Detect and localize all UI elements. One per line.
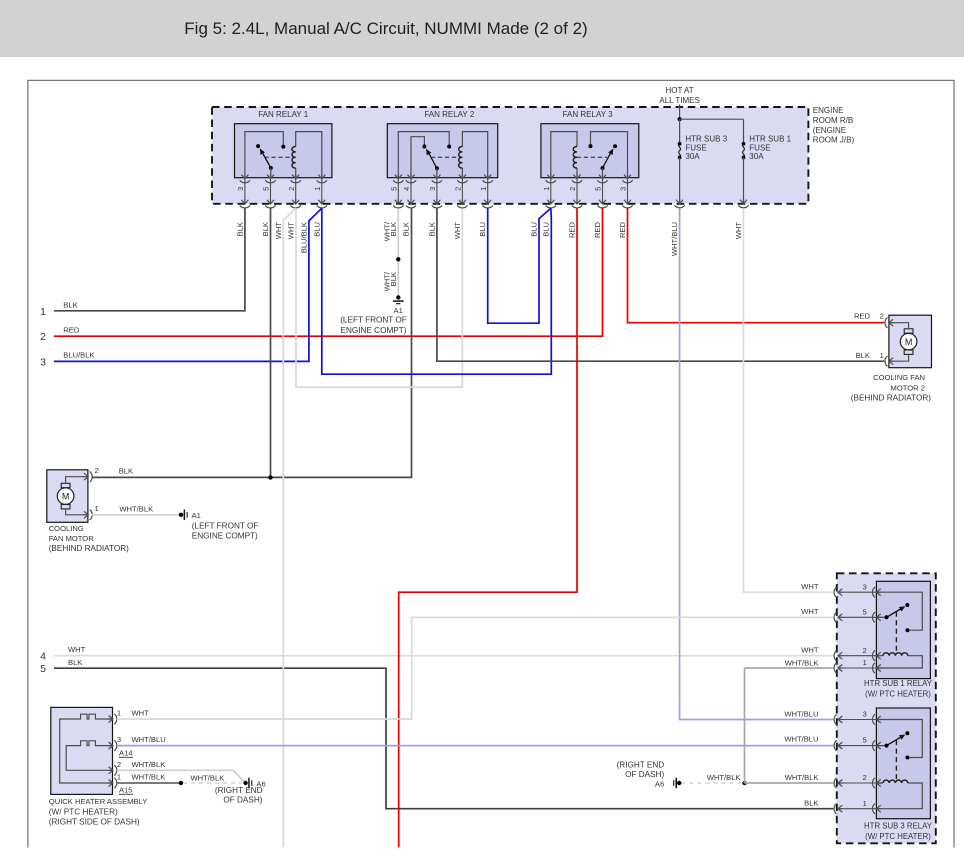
svg-text:(BEHIND RADIATOR): (BEHIND RADIATOR) xyxy=(851,394,931,403)
wire WHT/BLK junction to HTR SUB3 relay pin2 xyxy=(745,782,834,784)
motor M2 symbol xyxy=(900,333,917,350)
svg-text:1: 1 xyxy=(95,504,99,513)
wire WHT/BLK heater pin2 to connector A6 xyxy=(117,770,246,782)
svg-text:(W/ PTC HEATER): (W/ PTC HEATER) xyxy=(865,832,931,841)
relay K2 contact route pin4 xyxy=(411,137,424,178)
pin 1 stem xyxy=(550,178,552,204)
svg-text:WHT/BLU: WHT/BLU xyxy=(132,735,166,744)
svg-text:1: 1 xyxy=(479,187,488,191)
junction node WHT/BLK heater xyxy=(179,781,183,785)
fuse F2 HTR SUB 1 FUSE 30A xyxy=(743,119,745,144)
svg-text:BLK: BLK xyxy=(119,467,133,476)
svg-text:FAN RELAY 3: FAN RELAY 3 xyxy=(563,110,614,119)
engine room R/B dashed box xyxy=(212,107,808,204)
relay K3 contact dot left xyxy=(589,144,593,148)
svg-text:HTR SUB 1: HTR SUB 1 xyxy=(749,135,791,144)
relay HTR SUB 3 RELAY dashed actuator link xyxy=(895,740,897,781)
relay K3 blade pivot dot xyxy=(601,166,605,170)
svg-text:2: 2 xyxy=(568,187,577,191)
svg-text:WHT: WHT xyxy=(453,222,462,240)
relay K2 FAN RELAY 2 xyxy=(387,124,497,178)
wire WHT/BLK heater pin1 to junction xyxy=(117,782,181,784)
wire 4 WHT left edge to HTR SUB1 relay pin2 xyxy=(54,655,833,657)
svg-text:3: 3 xyxy=(236,187,245,191)
relay HTR SUB 1 RELAY floating contact dot xyxy=(905,603,909,607)
svg-text:ROOM R/B: ROOM R/B xyxy=(813,116,853,125)
pin 1 stem xyxy=(321,178,323,204)
svg-text:1: 1 xyxy=(863,799,867,808)
relay HTR SUB 1 RELAY pivot dot pin5 xyxy=(876,616,886,618)
wire WHT/BLK to HTR SUB1 relay pin1 xyxy=(745,667,834,669)
svg-text:1: 1 xyxy=(542,187,551,191)
wire WHT fuse F2 to HTR SUB1 relay pin3 xyxy=(744,208,834,592)
svg-text:30A: 30A xyxy=(749,152,764,161)
svg-text:WHT/BLU: WHT/BLU xyxy=(670,222,679,256)
svg-text:COOLING FAN: COOLING FAN xyxy=(873,373,925,382)
svg-text:FAN RELAY 2: FAN RELAY 2 xyxy=(424,110,475,119)
pin 2 connector motor M1 xyxy=(83,472,92,482)
relay HTR SUB 3 RELAY contact route pin3 xyxy=(876,720,922,758)
svg-text:(RIGHT SIDE OF DASH): (RIGHT SIDE OF DASH) xyxy=(49,818,140,827)
fuse F1 HTR SUB 3 FUSE 30A xyxy=(679,119,681,144)
relay K3 floating contact dot xyxy=(613,144,617,148)
svg-text:BLK: BLK xyxy=(261,222,270,236)
relay K2 contact dot left xyxy=(422,145,426,149)
svg-text:ENGINE COMPT): ENGINE COMPT) xyxy=(192,532,258,541)
svg-text:5: 5 xyxy=(390,187,399,191)
connector A6 left xyxy=(243,781,247,785)
svg-text:2: 2 xyxy=(117,760,121,769)
relay HTR SUB 3 RELAY floating contact dot xyxy=(905,731,909,735)
relay K3 coil xyxy=(576,168,578,178)
wire 1 BLK relay1 pin3 to left edge xyxy=(54,208,245,311)
svg-text:5: 5 xyxy=(40,663,46,675)
svg-text:(BEHIND RADIATOR): (BEHIND RADIATOR) xyxy=(49,544,129,553)
svg-text:1: 1 xyxy=(117,773,121,782)
svg-text:M: M xyxy=(62,492,70,502)
pin 3 connector HTR SUB 1 RELAY xyxy=(834,587,843,597)
svg-text:FAN MOTOR: FAN MOTOR xyxy=(49,534,95,543)
svg-text:BLK: BLK xyxy=(235,222,244,236)
svg-text:MOTOR 2: MOTOR 2 xyxy=(891,383,925,392)
svg-text:A1: A1 xyxy=(394,306,403,315)
pin 1 connector heater top xyxy=(108,714,117,724)
svg-text:3: 3 xyxy=(863,710,867,719)
pin 5 connector HTR SUB 1 RELAY xyxy=(834,612,843,622)
pin 1 connector HTR SUB 3 RELAY xyxy=(834,804,843,814)
pin 5 stem xyxy=(602,178,604,204)
wire feed from hot at all times xyxy=(679,105,681,120)
svg-text:Fig 5: 2.4L, Manual A/C Circui: Fig 5: 2.4L, Manual A/C Circuit, NUMMI M… xyxy=(184,19,587,38)
svg-text:WHT/BLU: WHT/BLU xyxy=(784,709,818,718)
pin 2 stem xyxy=(461,178,463,204)
relay K3 FAN RELAY 3 xyxy=(541,124,639,178)
svg-text:ALL TIMES: ALL TIMES xyxy=(659,96,699,105)
relay K1 dashed actuator link xyxy=(265,156,295,158)
svg-text:BLU: BLU xyxy=(312,222,321,237)
wire WHT/BLK vertical to HTR SUB1 relay pin1 xyxy=(744,668,746,783)
relay K1 movable contact dot xyxy=(256,144,260,148)
svg-text:HOT AT: HOT AT xyxy=(666,86,694,95)
relay HTR SUB 3 RELAY pivot dot pin5 xyxy=(876,745,886,747)
pin 2 stem xyxy=(295,178,297,204)
svg-text:3: 3 xyxy=(619,187,628,191)
wire BLK relay1 pin5 to motor junction xyxy=(270,208,272,477)
relay K2 dashed actuator link xyxy=(431,156,461,158)
pin 1 connector HTR SUB 1 RELAY xyxy=(834,663,843,673)
motor M1 COOLING FAN MOTOR box xyxy=(47,470,88,523)
svg-text:2: 2 xyxy=(95,466,99,475)
svg-text:FUSE: FUSE xyxy=(749,143,770,152)
svg-text:ENGINE COMPT): ENGINE COMPT) xyxy=(341,326,407,335)
svg-text:3: 3 xyxy=(117,735,121,744)
svg-text:QUICK HEATER ASSEMBLY: QUICK HEATER ASSEMBLY xyxy=(49,797,147,806)
relay K1 switch blade xyxy=(262,153,270,168)
svg-text:WHT: WHT xyxy=(801,646,819,655)
svg-text:(LEFT FRONT OF: (LEFT FRONT OF xyxy=(192,522,259,531)
svg-text:(RIGHT END: (RIGHT END xyxy=(215,786,263,795)
svg-text:WHT: WHT xyxy=(68,645,86,654)
svg-text:WHT/BLK: WHT/BLK xyxy=(785,773,819,782)
relay HTR SUB 1 RELAY contact route pin3 xyxy=(876,592,922,630)
wire 3 BLU/BLK relay1 pin1 to left edge xyxy=(54,208,322,361)
svg-text:A1: A1 xyxy=(192,511,201,520)
relay K3 switch blade xyxy=(603,153,611,168)
svg-text:ROOM J/B): ROOM J/B) xyxy=(813,136,855,145)
pin 5 stem xyxy=(397,178,399,204)
relay K3 coil route pin1 xyxy=(551,132,577,178)
relay HTR SUB 3 RELAY coil xyxy=(876,783,922,809)
wire BLU relay2 pin1 to relay3 pin1 diagonal xyxy=(488,208,551,323)
relay HTR SUB 1 RELAY dashed actuator link xyxy=(895,612,897,654)
svg-text:(W/ PTC HEATER): (W/ PTC HEATER) xyxy=(865,690,931,699)
svg-text:5: 5 xyxy=(863,736,867,745)
svg-text:WHT/BLK: WHT/BLK xyxy=(707,773,741,782)
svg-text:30A: 30A xyxy=(685,152,700,161)
svg-text:4: 4 xyxy=(402,187,411,191)
svg-text:BLK: BLK xyxy=(856,351,870,360)
svg-text:5: 5 xyxy=(262,187,271,191)
svg-text:1: 1 xyxy=(863,658,867,667)
wire WHT/BLK motor M1 pin1 to connector A1 xyxy=(92,514,179,516)
svg-text:HTR SUB 1 RELAY: HTR SUB 1 RELAY xyxy=(864,679,933,688)
wire RED relay3 pin2 down to bottom xyxy=(399,208,577,847)
title bar xyxy=(0,0,964,57)
relay K1 coil xyxy=(296,132,322,178)
wire WHT/BLU heater pin3 to HTR SUB3 relay pin5 xyxy=(117,745,834,747)
wire RED relay3 pin3 to cooling fan motor 2 pin2 xyxy=(628,208,885,323)
pin connector fuse F1 out xyxy=(674,199,684,208)
wire 5 BLK left edge to HTR SUB3 relay pin1 xyxy=(54,668,833,809)
svg-text:WHT: WHT xyxy=(734,222,743,240)
wire BLK cooling fan motor pin2 to relay2 pin4 xyxy=(92,208,412,477)
svg-text:BLK: BLK xyxy=(427,222,436,236)
dashed wire WHT/BLK to connector A6 xyxy=(183,782,243,784)
pin 1 connector heater bottom xyxy=(108,778,117,788)
svg-text:BLK: BLK xyxy=(804,799,818,808)
heater element R2 xyxy=(66,741,112,771)
svg-text:RED: RED xyxy=(618,221,627,238)
svg-text:RED: RED xyxy=(854,312,871,321)
svg-text:BLU/BLK: BLU/BLK xyxy=(63,351,94,360)
pin 2 stem xyxy=(576,178,578,204)
relay K1 fixed contact dot xyxy=(281,145,285,149)
svg-text:BLK: BLK xyxy=(389,222,398,236)
relay K2 coil xyxy=(462,132,487,178)
svg-text:COOLING: COOLING xyxy=(49,524,84,533)
svg-text:A15: A15 xyxy=(119,785,133,794)
svg-text:WHT/BLK: WHT/BLK xyxy=(132,760,166,769)
svg-text:WHT/BLK: WHT/BLK xyxy=(191,774,225,783)
relay K1 blade pivot dot xyxy=(269,166,273,170)
svg-text:FAN RELAY 1: FAN RELAY 1 xyxy=(258,110,309,119)
pin 3 stem xyxy=(436,178,438,204)
junction node WHT/BLK HTR relays xyxy=(742,781,746,785)
svg-text:BLK: BLK xyxy=(68,658,82,667)
svg-text:FUSE: FUSE xyxy=(685,143,706,152)
svg-text:(ENGINE: (ENGINE xyxy=(813,126,846,135)
svg-text:3: 3 xyxy=(863,582,867,591)
relay K3 dashed actuator link xyxy=(577,156,607,158)
svg-text:(RIGHT END: (RIGHT END xyxy=(617,761,665,770)
svg-text:BLU/BLK: BLU/BLK xyxy=(299,222,308,253)
pin 1 connector motor M2 xyxy=(885,356,894,366)
relay K2 switch blade xyxy=(429,153,437,168)
svg-text:WHT: WHT xyxy=(801,607,819,616)
svg-text:2: 2 xyxy=(863,646,867,655)
relay K1 FAN RELAY 1 xyxy=(235,124,332,178)
relay K1 switch contact route pin3 xyxy=(245,132,283,178)
ground G1 A1 left front of engine compt xyxy=(396,295,400,299)
svg-text:2: 2 xyxy=(863,773,867,782)
dashed wire WHT/BLK A6 to junction xyxy=(682,782,743,784)
pin 3 connector heater xyxy=(108,740,117,750)
wire WHT/BLK relay2 pin5 to ground xyxy=(397,208,399,295)
relay K2 fixed contact dot right xyxy=(447,145,451,149)
svg-text:2: 2 xyxy=(454,187,463,191)
pin 2 connector HTR SUB 3 RELAY xyxy=(834,778,843,788)
svg-text:2: 2 xyxy=(287,187,296,191)
svg-text:BLK: BLK xyxy=(389,272,398,286)
relay K2 contact route pin5 xyxy=(398,132,449,178)
svg-text:WHT: WHT xyxy=(801,582,819,591)
svg-text:3: 3 xyxy=(40,356,46,368)
wire feed bus to fuse 2 xyxy=(680,118,744,120)
svg-text:(W/ PTC HEATER): (W/ PTC HEATER) xyxy=(49,807,118,816)
connector A1 inline xyxy=(179,513,183,517)
motor M1 symbol xyxy=(57,488,74,505)
relay K5 HTR SUB 3 RELAY xyxy=(876,708,930,819)
svg-text:WHT: WHT xyxy=(274,222,283,240)
svg-text:1: 1 xyxy=(117,709,121,718)
node feed junction xyxy=(678,117,682,121)
svg-text:WHT: WHT xyxy=(287,222,296,240)
pin 1 stem xyxy=(487,178,489,204)
relay K4 HTR SUB 1 RELAY xyxy=(876,581,930,678)
relay HTR SUB 3 RELAY switch blade xyxy=(887,737,902,746)
relay HTR SUB 1 RELAY coil xyxy=(876,656,922,668)
svg-text:RED: RED xyxy=(568,221,577,238)
pin 5 stem xyxy=(270,178,272,204)
pin 2 connector motor M2 xyxy=(885,318,894,328)
svg-text:1: 1 xyxy=(40,306,46,318)
wire WHT relay1 pin2 to relay2 pin2 xyxy=(296,208,462,387)
wire WHT/BLU fuse F1 to HTR SUB3 relay pin3 xyxy=(680,208,834,719)
pin 4 stem xyxy=(410,178,412,204)
wire BLU relay1 pin1 to relay3 pin1 xyxy=(322,208,552,374)
svg-text:OF DASH): OF DASH) xyxy=(625,770,664,779)
pin 2 connector HTR SUB 1 RELAY xyxy=(834,651,843,661)
svg-text:BLK: BLK xyxy=(63,300,77,309)
svg-text:WHT/BLK: WHT/BLK xyxy=(119,505,153,514)
svg-text:(LEFT FRONT OF: (LEFT FRONT OF xyxy=(340,316,407,325)
svg-text:HTR SUB 3: HTR SUB 3 xyxy=(685,135,727,144)
svg-text:5: 5 xyxy=(863,607,867,616)
relay K3 contact route pin3 xyxy=(591,132,628,178)
svg-text:2: 2 xyxy=(880,312,884,321)
svg-text:WHT: WHT xyxy=(132,709,150,718)
svg-text:M: M xyxy=(905,337,913,347)
svg-text:1: 1 xyxy=(880,351,884,360)
svg-text:5: 5 xyxy=(594,187,603,191)
svg-text:ENGINE: ENGINE xyxy=(813,106,844,115)
svg-text:BLU: BLU xyxy=(478,222,487,237)
svg-text:BLU: BLU xyxy=(541,222,550,237)
HTR SUB relays dashed box xyxy=(837,573,936,843)
svg-text:BLU: BLU xyxy=(530,222,539,237)
svg-text:WHT/BLU: WHT/BLU xyxy=(784,734,818,743)
svg-text:OF DASH): OF DASH) xyxy=(223,796,262,805)
quick heater assembly box xyxy=(51,707,113,794)
wire BLK relay2 pin3 to cooling fan motor 2 pin1 xyxy=(437,208,884,361)
wire WHT heater pin1 to HTR SUB1 relay pin5 xyxy=(117,617,834,719)
pin 3 stem xyxy=(627,178,629,204)
svg-text:4: 4 xyxy=(40,651,46,663)
pin connector fuse F2 out xyxy=(738,199,748,208)
svg-text:A6: A6 xyxy=(655,779,664,788)
heater element R1 xyxy=(60,714,113,783)
pin 2 connector heater xyxy=(108,765,117,775)
relay K2 blade pivot dot xyxy=(435,166,439,170)
relay HTR SUB 1 RELAY switch blade xyxy=(887,608,902,617)
pin 5 connector HTR SUB 3 RELAY xyxy=(834,740,843,750)
svg-text:HTR SUB 3 RELAY: HTR SUB 3 RELAY xyxy=(864,821,933,830)
relay HTR SUB 1 RELAY contact dot pin3 xyxy=(905,628,909,632)
svg-text:3: 3 xyxy=(428,187,437,191)
pin 3 connector HTR SUB 3 RELAY xyxy=(834,714,843,724)
relay HTR SUB 3 RELAY contact dot pin3 xyxy=(905,756,909,760)
wire 2 RED relay3 pin5 to left edge xyxy=(54,208,603,336)
motor M2 COOLING FAN MOTOR 2 box xyxy=(889,315,932,368)
svg-text:1: 1 xyxy=(313,187,322,191)
svg-text:BLK: BLK xyxy=(402,222,411,236)
svg-text:WHT/BLK: WHT/BLK xyxy=(132,773,166,782)
svg-text:A14: A14 xyxy=(119,748,133,757)
svg-text:RED: RED xyxy=(63,326,80,335)
svg-text:RED: RED xyxy=(593,221,602,238)
svg-text:WHT/BLK: WHT/BLK xyxy=(785,658,819,667)
wire WHT relay1 pin2 diagonal down to bottom xyxy=(283,208,295,847)
junction node BLK wires xyxy=(268,475,272,479)
pin 3 stem xyxy=(244,178,246,204)
pin 1 connector motor M1 xyxy=(83,510,92,520)
svg-text:2: 2 xyxy=(40,331,46,343)
junction node WHT/BLK splice xyxy=(396,257,400,261)
